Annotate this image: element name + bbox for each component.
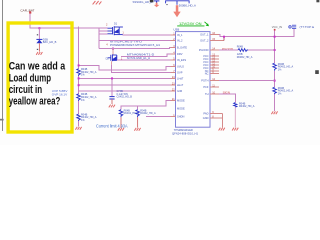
wire SHDN xyxy=(146,116,171,118)
wire cap down xyxy=(111,78,113,95)
svg-text:SHDN: SHDN xyxy=(177,115,184,119)
svg-text:IN_1: IN_1 xyxy=(177,33,183,37)
wire IN_1 xyxy=(123,34,171,36)
wire CAR_BAT down and right xyxy=(30,13,99,28)
svg-text:SSS04G_HD_B: SSS04G_HD_B xyxy=(133,0,153,4)
svg-text:NC: NC xyxy=(205,71,209,75)
wire B_GATE xyxy=(99,47,171,50)
junction PGTH xyxy=(274,80,276,82)
wire ILIM resistors xyxy=(121,106,138,110)
svg-text:yeallow area?: yeallow area? xyxy=(9,96,61,108)
dark square top right xyxy=(316,0,319,2)
svg-text:PGOOD: PGOOD xyxy=(199,48,209,52)
junction square top xyxy=(150,0,154,2)
wire PGOOD xyxy=(219,49,238,51)
junction PGOOD/VCC xyxy=(274,49,276,51)
svg-text:MODE: MODE xyxy=(177,106,185,110)
TVS diode D (in yellow area) xyxy=(36,28,42,51)
wire SNS xyxy=(219,94,236,102)
ground (chassis) top center xyxy=(93,1,102,4)
connector symbol top right xyxy=(289,25,296,28)
wire IN_2 xyxy=(99,40,171,42)
wire SNS to gnd xyxy=(234,107,236,127)
svg-text:Load dump: Load dump xyxy=(9,72,52,84)
svg-text:OUT_2: OUT_2 xyxy=(200,39,209,43)
resistor SNS xyxy=(234,103,237,108)
wire row 91 xyxy=(79,90,171,92)
svg-text:DRV: DRV xyxy=(177,52,183,56)
svg-text:U3B: U3B xyxy=(173,28,179,32)
ground PAD/GND xyxy=(219,128,225,131)
svg-text:LHdT: LHdT xyxy=(177,77,184,81)
resistor ILIM 1 xyxy=(119,110,123,118)
inductor L (blue T component) xyxy=(154,1,160,3)
left pin stubs xyxy=(171,35,176,117)
wire IN_EFS xyxy=(117,59,171,61)
svg-text:(T7:TOP la: (T7:TOP la xyxy=(300,25,315,29)
wire row 85 xyxy=(79,84,171,86)
svg-text:PCF: PCF xyxy=(203,85,209,89)
junction dots middle xyxy=(78,64,80,66)
wire OUT to connector xyxy=(219,28,294,36)
svg-text:POWERMOSFET-MTN2PCH0.5_H1: POWERMOSFET-MTN2PCH0.5_H1 xyxy=(110,43,160,47)
wire DRV xyxy=(121,54,171,57)
left gray border line xyxy=(2,0,4,131)
wire junction to mosfet2 drain xyxy=(112,49,114,55)
capacitor C74B xyxy=(109,97,114,99)
resistor ILIM 2 xyxy=(136,110,140,118)
ground divider bottom xyxy=(75,127,81,130)
right pin names xyxy=(199,33,209,121)
svg-text:PAD: PAD xyxy=(203,111,208,115)
left pin names xyxy=(177,33,187,119)
wire PGOOD to VCC column xyxy=(248,49,274,51)
red arrow 1 xyxy=(154,3,160,8)
junction OUT/VCC_IN xyxy=(274,36,276,38)
resistor R divider A xyxy=(77,69,81,76)
svg-text:ILIM: ILIM xyxy=(177,89,182,93)
svg-text:sHuT: sHuT xyxy=(177,83,184,87)
wire mosfet2 source down to row 72.5 xyxy=(112,64,171,72)
svg-text:CAR_BAT: CAR_BAT xyxy=(20,9,34,13)
wire OVP xyxy=(79,77,171,79)
mosfet2 source stub down xyxy=(111,61,113,64)
ground under cap xyxy=(109,105,115,108)
wire VCC_IN down xyxy=(274,31,276,111)
ground under diode xyxy=(36,52,42,55)
svg-text:OUT_1: OUT_1 xyxy=(200,33,209,37)
svg-text:UVLO: UVLO xyxy=(177,65,184,69)
svg-text:OVP: OVP xyxy=(177,71,183,75)
resistor R divider B xyxy=(77,94,81,101)
svg-text:R04B: R04B xyxy=(237,45,244,48)
svg-text:GND: GND xyxy=(203,116,209,120)
ground SNS xyxy=(232,128,238,131)
right pin numbers xyxy=(212,32,215,119)
svg-text:Can we add a: Can we add a xyxy=(9,61,66,73)
svg-text:Current limit 4.93A: Current limit 4.93A xyxy=(96,124,128,129)
svg-text:IN_2: IN_2 xyxy=(177,39,183,43)
wires into mosfet1 pins xyxy=(99,28,108,48)
resistor R horizontal PGOOD xyxy=(238,49,248,52)
svg-text:PGTH: PGTH xyxy=(201,79,208,83)
fuse bracket component xyxy=(166,1,190,5)
tiny connector mark xyxy=(166,4,168,5)
resistor VCC divider top xyxy=(273,63,277,71)
svg-text:R04B2_HD_A: R04B2_HD_A xyxy=(237,56,253,59)
mosfet Q1 xyxy=(108,26,123,35)
CAR_BAT node dot xyxy=(29,11,31,13)
ground under R ilim2 xyxy=(137,117,139,127)
VCC_IN node dot xyxy=(274,29,276,31)
svg-text:QFN24-808-ID10_H1: QFN24-808-ID10_H1 xyxy=(172,131,198,135)
svg-text:circuit in: circuit in xyxy=(9,84,42,96)
junction on B_GATE wire xyxy=(112,48,114,50)
svg-text:R0402_HD_A: R0402_HD_A xyxy=(140,112,156,115)
svg-text:B_GATE: B_GATE xyxy=(177,46,187,50)
svg-text:MODE: MODE xyxy=(177,99,185,103)
wire PGTH row xyxy=(219,80,275,82)
ground under R ilim1 xyxy=(120,117,122,127)
resistor R divider C xyxy=(77,114,81,121)
svg-text:R0402_HD_A: R0402_HD_A xyxy=(239,105,255,108)
divider column vertical xyxy=(78,27,80,69)
svg-text:C0402_HD_B: C0402_HD_B xyxy=(117,96,133,99)
mosfet Q2 xyxy=(108,54,117,61)
right pin stubs xyxy=(210,35,224,128)
resistor VCC divider bottom xyxy=(273,87,277,94)
svg-text:TH: TH xyxy=(205,92,209,96)
svg-text:BZC_HD_B: BZC_HD_B xyxy=(43,40,57,44)
ground VCC divider xyxy=(271,111,277,114)
dark square right edge mid xyxy=(315,70,319,74)
left pin numbers xyxy=(172,32,175,117)
gray tick on border xyxy=(0,119,4,121)
red arrow 2 xyxy=(173,5,180,17)
svg-text:VCC_IN: VCC_IN xyxy=(272,25,282,29)
junction node at diode column xyxy=(38,27,40,29)
svg-text:500B0_HD_A: 500B0_HD_A xyxy=(179,3,196,7)
question text xyxy=(9,61,66,108)
svg-text:IN_EFS: IN_EFS xyxy=(177,58,186,62)
wire OUT_2 joins xyxy=(223,37,225,41)
wire UVLO from divider xyxy=(79,65,171,69)
